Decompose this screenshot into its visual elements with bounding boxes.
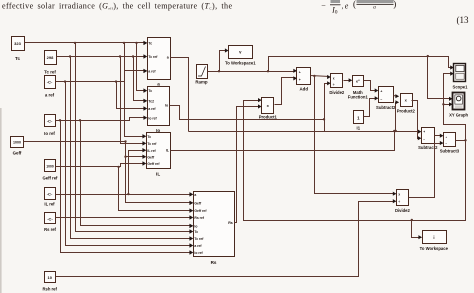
node To-Workspace sink [423,231,447,244]
svg-text:Geff: Geff [13,151,22,156]
svg-text:-C-: -C- [47,216,53,221]
wire Ioref-to-Rs-Io [81,121,193,226]
svg-text:,: , [342,3,344,11]
svg-text:+: + [380,89,382,93]
svg-text:): ) [393,0,396,9]
svg-text:+: + [299,70,301,74]
node Subtract3 [444,133,456,147]
svg-text:Rs: Rs [211,260,217,265]
wire aref-to-Rs [66,82,193,246]
wire ILref-line [56,194,193,196]
svg-text:Divide2: Divide2 [395,208,411,213]
wire Tc-to-Io [137,43,147,91]
svg-text:(: ( [353,0,356,9]
svg-text:Io ref: Io ref [148,116,157,120]
node a-ref constant [45,76,56,89]
svg-text:Rs: Rs [228,221,233,225]
svg-text:Divide2: Divide2 [329,90,345,95]
svg-text:Subtract3: Subtract3 [440,149,460,154]
svg-text:323: 323 [14,41,21,46]
wire [0,108,2,293]
svg-text:Product2: Product2 [397,108,416,113]
op-amp subsystem a [148,38,171,80]
svg-text:÷: ÷ [398,200,400,204]
node Tc constant [12,37,25,51]
node Geff-ref constant [45,160,56,172]
node I1 constant [354,111,364,124]
svg-text:Rsh ref: Rsh ref [42,287,57,292]
svg-text:-C-: -C- [47,80,53,85]
node Product2 [401,94,413,107]
wire a-to-Divide1 [325,84,330,120]
node Math-Function1 [353,76,364,87]
node Tc-ref constant [45,51,57,65]
wire Add-to-Divide1 [311,76,330,77]
svg-text:Tc ref: Tc ref [147,142,157,146]
wire Geff-to-Rs [126,157,193,203]
svg-text:Io: Io [194,225,197,229]
svg-text:+: + [445,135,447,139]
svg-text:i: i [433,235,434,240]
wire Tc-to-IL [125,43,146,137]
svg-text:Tc2: Tc2 [148,100,154,104]
node Ramp source [197,65,208,79]
svg-text:-C-: -C- [47,191,53,196]
wire Io-out [170,106,325,132]
svg-text:IL: IL [156,172,160,177]
wire I-to-XYGraph [444,105,466,141]
wire a-to-corridor [171,58,189,132]
svg-text:Tc: Tc [147,135,151,139]
wire I-out [456,140,466,142]
wire Io-to-Product2 [396,103,399,132]
svg-text:+: + [299,78,301,82]
wire Rshref-to-Divide2 [56,202,396,277]
svg-text:a ref: a ref [45,93,55,98]
svg-text:Tc ref: Tc ref [148,55,158,59]
wire Tcref-to-Io [134,57,147,101]
svg-text:x: x [333,76,335,80]
wire Subtract2-to-Product2 [394,96,399,97]
wire Ramp-to-ToWorkspace1 [220,51,228,72]
svg-text:Geff: Geff [194,202,202,206]
node XY-Graph sink [453,93,465,110]
svg-text:XY Graph: XY Graph [449,113,468,118]
svg-text:Rs ref: Rs ref [44,227,56,232]
node Scope1 sink [454,64,466,82]
svg-text:Rs ref: Rs ref [194,216,204,220]
node Rs-ref constant [45,213,56,224]
node Geff constant [11,137,24,148]
svg-text:IL ref: IL ref [147,149,156,153]
svg-text:10: 10 [47,275,52,280]
svg-text:Geff ref: Geff ref [147,162,160,166]
svg-text:Product1: Product1 [259,115,278,120]
node Divide2 [397,190,409,206]
svg-text:−: − [423,138,425,142]
wire V-to-Scope1 [269,57,453,72]
wire aref-to-a [56,71,147,82]
svg-text:a: a [194,193,196,197]
op-amp subsystem Rs [194,192,235,257]
wire Rsref-to-Rs [56,217,193,219]
wire V-to-XYGraph [428,57,452,99]
node To-Workspace1 sink [229,46,253,59]
wire Rs-to-Product1 [235,107,261,223]
svg-text:Tc ref: Tc ref [194,237,204,241]
wire Tcref-to-Rs [71,57,193,239]
wire Divide1-to-Math [344,80,352,82]
op-amp subsystem Io [148,87,170,126]
svg-text:Tc: Tc [15,56,20,61]
svg-text:298: 298 [47,55,54,60]
svg-text:Io ref: Io ref [44,131,55,136]
svg-text:Geff ref: Geff ref [194,209,207,213]
svg-text:a ref: a ref [148,70,156,74]
svg-text:Tc: Tc [148,89,152,93]
wire IL-out [171,132,395,151]
node Io-ref constant [45,115,56,127]
node Rsh-ref constant [45,272,56,283]
svg-text:+: + [423,130,425,134]
wire Tcref-to-a [57,56,147,58]
wire Product2-to-Subtract [412,101,421,139]
svg-text:Function1: Function1 [348,95,369,100]
wire Tc-to-a [25,42,147,44]
svg-text:Geff: Geff [147,155,155,159]
wire I-to-Scope1 [444,74,453,105]
svg-text:To Workspace: To Workspace [420,246,449,251]
node Divide1 [331,74,343,88]
wire node-B-line [189,131,421,133]
svg-text:Subtract2: Subtract2 [418,145,438,150]
node IL-ref constant [45,188,56,200]
svg-text:e: e [345,2,349,11]
node Subtract [422,128,435,144]
wire Ramp-out [208,71,296,73]
svg-text:Subtract2: Subtract2 [376,105,396,110]
wire I-to-ToWorkspace [412,221,422,238]
svg-text:To Workspace1: To Workspace1 [225,61,256,66]
wire Tcref-to-IL [121,57,146,144]
node Add [297,68,311,85]
svg-text:a ref: a ref [148,107,156,111]
svg-text:Add: Add [300,87,309,92]
svg-text:a ref: a ref [194,244,202,248]
wire Divide2-to-Subtract3 [409,144,443,198]
op-amp subsystem IL [147,133,171,169]
wire Geffref-line [56,164,146,167]
svg-text:(13: (13 [457,15,469,25]
svg-text:-C-: -C- [47,118,53,123]
svg-text:−: − [380,97,382,101]
wire ILref-up [129,151,146,195]
wire Geff-line [24,142,146,157]
wire Math-to-Subtract2 [364,81,378,91]
svg-text:Tc ref: Tc ref [44,70,56,75]
svg-text:1000: 1000 [13,141,21,145]
svg-text:x: x [398,192,400,196]
wire Product1-to-Add [275,78,296,105]
svg-text:a: a [157,82,160,87]
wire Subtract-to-Subtract3 [435,135,443,137]
svg-text:÷: ÷ [333,83,335,87]
svg-text:Tc: Tc [148,42,152,46]
svg-text:1000: 1000 [46,165,54,169]
wire I1-to-Subtract2 [364,99,378,117]
svg-text:−: − [321,1,326,10]
svg-text:a: a [373,5,376,11]
wire I-feedback [244,101,466,221]
wire Ioref-to-Rs [61,121,193,253]
svg-text:effective solar irradiance (Ge: effective solar irradiance (Geff), the c… [2,2,232,11]
wire aref-to-Io [117,82,147,109]
svg-text:Io ref: Io ref [194,251,203,255]
svg-text:Geff ref: Geff ref [43,176,58,181]
wire Add-to-Divide2 [315,77,396,194]
svg-text:IL ref: IL ref [44,202,55,207]
node Product1 [262,98,274,114]
wire Tc-to-Rs [76,43,193,232]
svg-text:−: − [445,142,447,146]
svg-text:Tc: Tc [194,230,198,234]
svg-text:Scope1: Scope1 [453,85,469,90]
wire Geffref-to-Rs [119,167,193,211]
wire Ioref-line [56,118,147,121]
svg-text:Ramp: Ramp [195,79,208,84]
node Subtract2 [379,87,394,103]
